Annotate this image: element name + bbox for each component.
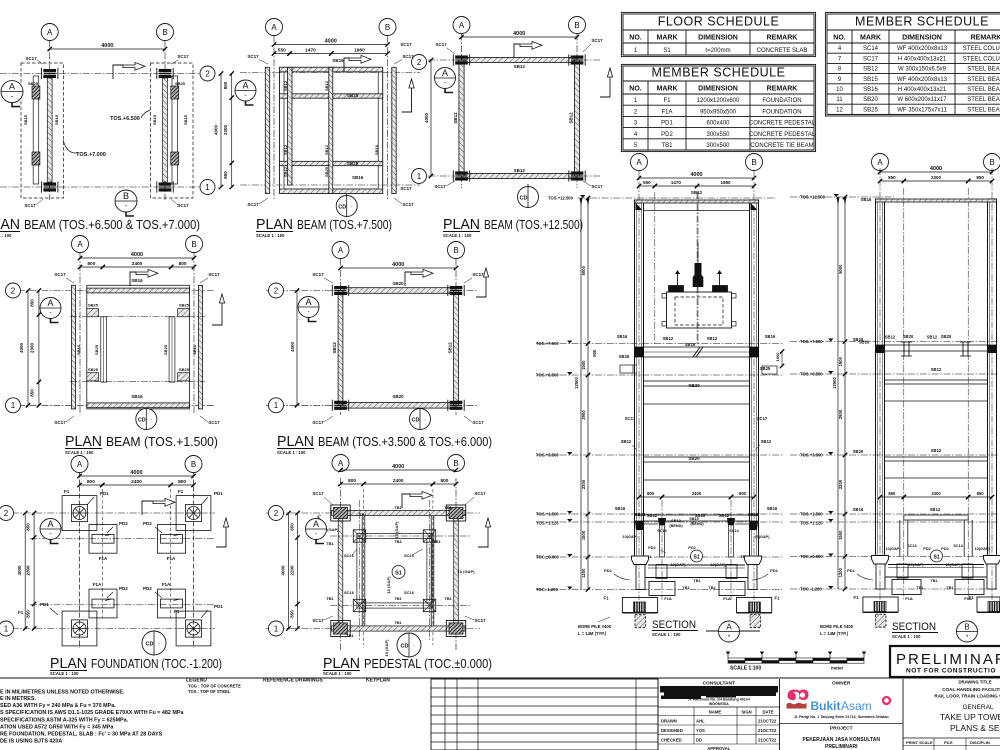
- svg-text:PD1: PD1: [214, 604, 223, 609]
- svg-text:800: 800: [179, 261, 187, 267]
- svg-text:FOUNDATION: FOUNDATION: [762, 98, 801, 104]
- svg-text:TOS.+3.500: TOS.+3.500: [800, 453, 823, 458]
- svg-text:SB16: SB16: [617, 334, 628, 339]
- svg-text:SCALE 1 : 100: SCALE 1 : 100: [443, 233, 472, 238]
- SB25 pads: [87, 309, 99, 317]
- grid line A: [79, 253, 81, 416]
- svg-text:10(GAP): 10(GAP): [886, 547, 902, 551]
- svg-text:SB16: SB16: [76, 344, 81, 355]
- svg-text:SC17: SC17: [400, 186, 412, 191]
- svg-text:SC17: SC17: [591, 38, 603, 43]
- svg-text:SB25: SB25: [175, 81, 186, 86]
- svg-text:A: A: [305, 297, 311, 307]
- svg-text:4000: 4000: [325, 39, 337, 45]
- svg-text:SB16: SB16: [853, 507, 864, 512]
- svg-text:SC17: SC17: [312, 272, 324, 277]
- svg-text:10 (GAP): 10 (GAP): [384, 639, 389, 657]
- svg-text:ATION USED A572 GR50 WITH Fy: ATION USED A572 GR50 WITH Fy = 345 MPa: [0, 725, 114, 731]
- svg-text:(BEND): (BEND): [690, 522, 704, 526]
- svg-text:A: A: [271, 23, 277, 32]
- svg-text:·: ·: [351, 205, 353, 211]
- grid bubble 1: [412, 169, 427, 184]
- svg-text:SC17: SC17: [591, 184, 603, 189]
- svg-text:F1A: F1A: [964, 596, 972, 601]
- grid line B dashdot: [991, 168, 993, 600]
- svg-text:SB16: SB16: [131, 278, 143, 283]
- svg-text:L = 14M (TYP.): L = 14M (TYP.): [820, 631, 849, 636]
- svg-text:SB15: SB15: [54, 114, 59, 125]
- svg-text:Jl. Parigi No. 1 Tanjung Enim: Jl. Parigi No. 1 Tanjung Enim 31716, Sum…: [794, 715, 890, 719]
- svg-text:800: 800: [739, 491, 747, 496]
- svg-text:SB12: SB12: [453, 112, 458, 124]
- svg-text:A: A: [47, 28, 53, 37]
- dimension 4000: [80, 475, 194, 477]
- up arrow: [216, 527, 226, 547]
- svg-text:STEEL BEAM: STEEL BEAM: [967, 87, 1000, 93]
- svg-text:PLANS & SECTIO: PLANS & SECTIO: [950, 723, 1000, 733]
- svg-text:950x950x500: 950x950x500: [700, 109, 737, 115]
- svg-text:TB1: TB1: [946, 586, 953, 590]
- svg-text:BEAM (TOS.+3.500 & TOS.+6.000): BEAM (TOS.+3.500 & TOS.+6.000): [318, 435, 492, 449]
- svg-text:10(GAP): 10(GAP): [975, 547, 991, 551]
- svg-text:A: A: [47, 298, 53, 308]
- svg-text:SC17: SC17: [312, 618, 324, 623]
- beam row at TOS+7.500: [635, 347, 759, 357]
- svg-text:800: 800: [178, 479, 186, 485]
- svg-text:1: 1: [4, 624, 9, 633]
- svg-text:PLAN: PLAN: [65, 434, 102, 450]
- svg-text:2300: 2300: [26, 565, 31, 576]
- dimensions 800 2400 800: [80, 484, 103, 486]
- dimension column 850/2300/850: [231, 74, 233, 188]
- corner pedestal A1: [331, 621, 350, 637]
- grid line A: [340, 478, 342, 650]
- svg-text:SB20: SB20: [688, 456, 700, 461]
- svg-text:B: B: [574, 21, 579, 30]
- grid bubble A: [332, 455, 349, 472]
- SC16 pads at inner corners: [353, 530, 365, 542]
- grid bubble 2: [200, 66, 215, 81]
- grid line A: [461, 34, 463, 189]
- section ref circle B: [957, 621, 978, 642]
- svg-text:1200: 1200: [838, 567, 843, 577]
- center dashdot through equipment: [697, 192, 699, 345]
- dimension 4000: [50, 48, 165, 50]
- svg-text:SB12: SB12: [931, 448, 942, 453]
- frame outline: [280, 67, 383, 193]
- up arrow right: [600, 77, 610, 97]
- svg-text:F1A: F1A: [162, 582, 171, 587]
- svg-text:INDONESIA: INDONESIA: [709, 702, 729, 706]
- svg-text:PD2: PD2: [119, 521, 128, 526]
- svg-text:REMARK: REMARK: [767, 86, 798, 93]
- section marker CD: [153, 632, 155, 641]
- svg-text:WF 400x200x8x13: WF 400x200x8x13: [897, 46, 948, 52]
- svg-text:STEEL BEAM: STEEL BEAM: [967, 97, 1000, 103]
- svg-text:A: A: [338, 459, 344, 468]
- grid line B: [193, 473, 195, 649]
- svg-text:12500: 12500: [574, 377, 579, 389]
- svg-text:TB1: TB1: [346, 633, 354, 638]
- up arrow: [212, 303, 222, 325]
- bottom beam SB16: [87, 403, 190, 408]
- svg-text:CD: CD: [146, 642, 154, 648]
- svg-text:SCALE 1 : 100: SCALE 1 : 100: [652, 632, 681, 637]
- svg-text:PEDESTAL (TOC.±0.000): PEDESTAL (TOC.±0.000): [364, 657, 492, 671]
- svg-text:TB1: TB1: [682, 586, 689, 590]
- svg-text:S1: S1: [693, 555, 699, 561]
- svg-text:SC17: SC17: [24, 203, 36, 208]
- beam SB20 at +3.500: [644, 457, 750, 462]
- beam SB20 at +6.500: [644, 381, 750, 386]
- north arrow: [113, 65, 123, 79]
- top beam SB16: [87, 288, 190, 293]
- svg-text:SB12: SB12: [514, 168, 526, 173]
- svg-text:SCALE 1 : 100: SCALE 1 : 100: [0, 233, 12, 238]
- corner pedestal B2: [446, 505, 465, 521]
- svg-text:4000: 4000: [17, 565, 22, 576]
- svg-text:SC17: SC17: [474, 491, 486, 496]
- svg-text:21OCT22: 21OCT22: [758, 738, 777, 743]
- svg-text:SB20: SB20: [853, 337, 864, 342]
- svg-text:S1: S1: [933, 555, 939, 561]
- north arrow: [514, 44, 520, 58]
- inner stub columns SC16: [660, 525, 665, 557]
- north arrow: [142, 501, 153, 515]
- svg-text:2200: 2200: [838, 479, 843, 489]
- svg-text:MARK: MARK: [657, 35, 678, 42]
- BukitAsam logo: [787, 690, 809, 709]
- svg-text:A: A: [636, 158, 642, 167]
- svg-text:SB15: SB15: [23, 114, 28, 125]
- inner vertical dashdot 550: [654, 192, 656, 345]
- svg-text:10 (GAP): 10 (GAP): [458, 569, 476, 574]
- svg-text:SB25: SB25: [28, 81, 39, 86]
- section marker CD bottom: [346, 194, 348, 207]
- svg-text:STEEL BEAM: STEEL BEAM: [967, 67, 1000, 73]
- section marker A: [306, 519, 327, 540]
- svg-text:TAKE UP TOWER 1: TAKE UP TOWER 1: [940, 712, 1000, 722]
- leader TOS.+6.500: [141, 110, 150, 118]
- level line TOS.+6.500: [536, 374, 784, 376]
- svg-text:SB16: SB16: [352, 175, 364, 180]
- svg-text:STEEL BEAM: STEEL BEAM: [967, 107, 1000, 113]
- svg-text:B: B: [162, 28, 167, 37]
- svg-text:TOS.+3.500: TOS.+3.500: [536, 453, 559, 458]
- level line TOC.+-0.000: [536, 556, 784, 558]
- dim 1000 right: [781, 352, 783, 367]
- pedestal cap left: [632, 556, 649, 565]
- svg-text:REMARK: REMARK: [767, 35, 798, 42]
- grid line 1: [0, 186, 199, 188]
- grid bubble 2: [412, 55, 427, 70]
- svg-text:10(GAP): 10(GAP): [755, 535, 771, 539]
- svg-text:TOC.-1.200: TOC.-1.200: [536, 587, 558, 592]
- svg-text:SB16: SB16: [131, 394, 143, 399]
- svg-text:SC17: SC17: [474, 618, 486, 623]
- svg-text:4000: 4000: [131, 252, 143, 258]
- svg-text:W 600x200x11x17: W 600x200x11x17: [897, 97, 947, 103]
- svg-text:SB15: SB15: [863, 77, 878, 83]
- pedestal cap left: [872, 556, 889, 565]
- svg-text:2900: 2900: [581, 410, 586, 420]
- north arrow: [344, 58, 349, 72]
- svg-text:SC17: SC17: [312, 491, 324, 496]
- svg-text:1470: 1470: [305, 48, 316, 54]
- svg-text:B: B: [123, 191, 129, 201]
- grid line B: [164, 41, 166, 201]
- beam SB12 at +3.500: [885, 457, 988, 461]
- svg-text:850: 850: [26, 523, 31, 531]
- foundation F1 grid B2: [176, 496, 211, 531]
- offset verticals: [363, 489, 365, 645]
- svg-text:TB1: TB1: [359, 512, 367, 517]
- beam assembly at grid B (plan view): [151, 63, 194, 198]
- svg-text:850: 850: [290, 610, 295, 618]
- foundation F1 left: [863, 597, 898, 612]
- pile left: [635, 615, 646, 628]
- svg-text:PLAN: PLAN: [0, 217, 20, 233]
- svg-text:NO.: NO.: [629, 35, 642, 42]
- svg-text:BEAM (TOS.+1.500): BEAM (TOS.+1.500): [106, 435, 218, 449]
- svg-text:PD2: PD2: [648, 546, 655, 550]
- svg-text:PD2: PD2: [119, 586, 128, 591]
- dimensions 800 2400 800: [341, 483, 364, 485]
- svg-text:FOUNDATION (TOC.-1.200): FOUNDATION (TOC.-1.200): [91, 657, 222, 671]
- beam SB16 bottom edge: [280, 189, 383, 194]
- svg-text:B: B: [453, 459, 458, 468]
- svg-text:MARK: MARK: [657, 86, 678, 93]
- section marker B bottom: [115, 190, 137, 212]
- svg-text:10(GAP): 10(GAP): [946, 563, 962, 567]
- grid bubble B: [448, 242, 465, 259]
- beam SB12 vertical left: [288, 67, 292, 185]
- svg-text:WF 350x175x7x11: WF 350x175x7x11: [897, 107, 947, 113]
- svg-text:850: 850: [30, 299, 35, 307]
- svg-text:21OCT22: 21OCT22: [758, 728, 777, 733]
- svg-text:PLAN: PLAN: [277, 434, 314, 450]
- svg-text:1500: 1500: [838, 356, 843, 366]
- level line TOS.+12.500: [578, 197, 776, 199]
- svg-text:10 (GAP): 10 (GAP): [386, 576, 391, 594]
- grid bubble B: [448, 455, 465, 472]
- svg-text:BEAM (TOS.+12.500): BEAM (TOS.+12.500): [484, 218, 583, 232]
- svg-text:PROJECT: PROJECT: [830, 726, 853, 732]
- grid line A dashdot: [879, 168, 881, 600]
- PRELIMINARY stamp: [890, 646, 1000, 677]
- foundation F1A right: [719, 582, 745, 596]
- svg-text:SB16: SB16: [765, 334, 776, 339]
- dimension 4000: [341, 469, 457, 471]
- svg-text:1500: 1500: [581, 360, 586, 370]
- svg-text:PD1: PD1: [604, 568, 613, 573]
- svg-text:SB12: SB12: [719, 513, 730, 518]
- grid bubble A: [266, 19, 283, 36]
- svg-text:STEEL COLUMN: STEEL COLUMN: [963, 56, 1000, 62]
- grid bubble B: [569, 17, 586, 34]
- svg-text:E IN METRES.: E IN METRES.: [0, 696, 36, 702]
- svg-text:MARK: MARK: [860, 35, 881, 42]
- svg-text:TOS.+12.500: TOS.+12.500: [548, 196, 574, 201]
- svg-text:Bukit: Bukit: [811, 699, 841, 713]
- equipment (take-up unit): [667, 292, 732, 328]
- svg-text:TB1: TB1: [326, 596, 334, 601]
- leader TOS.+7.000: [63, 140, 77, 153]
- svg-text:TOS.+6.500: TOS.+6.500: [110, 116, 140, 122]
- top beam SB12 level +12.500: [635, 200, 759, 203]
- svg-text:550: 550: [643, 180, 651, 185]
- tie beam top (outer): [332, 510, 466, 515]
- svg-text:5000: 5000: [838, 264, 843, 274]
- svg-text:SB25: SB25: [748, 512, 759, 517]
- svg-text:F1: F1: [174, 609, 180, 614]
- svg-text:800: 800: [647, 491, 655, 496]
- grid line 1: [0, 628, 215, 630]
- beam SB12 vertical mid: [329, 67, 333, 193]
- grid line B dashdot: [753, 170, 755, 600]
- svg-text:FLOOR SCHEDULE: FLOOR SCHEDULE: [658, 15, 780, 29]
- grid line A: [79, 473, 81, 649]
- beam SB12 at +6.500: [885, 380, 988, 384]
- svg-text:SC17: SC17: [435, 42, 447, 47]
- svg-text:A: A: [313, 519, 319, 529]
- section marker A: [435, 68, 456, 89]
- svg-text:SIGN: SIGN: [741, 710, 751, 715]
- up arrow: [476, 277, 486, 297]
- svg-text:DRAWING TITLE: DRAWING TITLE: [958, 680, 991, 685]
- svg-text:SC17: SC17: [247, 202, 259, 207]
- svg-text:Asam: Asam: [841, 699, 872, 713]
- svg-text:MEMBER SCHEDULE: MEMBER SCHEDULE: [652, 66, 786, 80]
- svg-text:2200: 2200: [581, 479, 586, 489]
- svg-text:10 (GAP): 10 (GAP): [394, 521, 399, 539]
- svg-text:550: 550: [278, 48, 286, 54]
- svg-text:4000: 4000: [513, 31, 525, 37]
- svg-text:SB13: SB13: [671, 519, 681, 523]
- inner beam pair left: [101, 317, 107, 382]
- north arrow: [405, 272, 411, 286]
- grid line 2: [266, 290, 478, 292]
- svg-text:SC17: SC17: [208, 272, 220, 277]
- svg-text:PRELIMINARI: PRELIMINARI: [825, 744, 858, 750]
- svg-text:t=200mm: t=200mm: [705, 48, 730, 54]
- svg-text:SB25: SB25: [88, 367, 99, 372]
- svg-text:850: 850: [290, 523, 295, 531]
- svg-text:DIMENSION: DIMENSION: [698, 35, 738, 42]
- beam assembly at grid A (plan view): [21, 63, 64, 198]
- grid bubble A: [71, 456, 88, 473]
- svg-text:PLAN: PLAN: [443, 217, 480, 233]
- svg-text:SB16: SB16: [861, 197, 872, 202]
- diagonal hatch marks on beam row: [634, 347, 644, 357]
- svg-text:2: 2: [205, 69, 210, 78]
- dim chain left: [587, 198, 589, 590]
- svg-text:SB12: SB12: [691, 190, 703, 195]
- svg-text:B: B: [385, 23, 390, 32]
- svg-text:1470: 1470: [671, 180, 682, 185]
- north arrow: [130, 272, 136, 286]
- svg-text:REFERENCE DRAWINGS: REFERENCE DRAWINGS: [263, 678, 323, 684]
- svg-text:2: 2: [11, 286, 16, 295]
- svg-text:300x500: 300x500: [706, 143, 730, 149]
- level line TOC.-1.200: [536, 589, 784, 591]
- svg-text:SB25: SB25: [347, 161, 359, 166]
- svg-text:RE FOUNDATION, PEDESTAL, SLAB: RE FOUNDATION, PEDESTAL, SLAB : Fc' = 30…: [0, 732, 163, 738]
- svg-text:SB16: SB16: [332, 58, 344, 63]
- svg-text:SB12: SB12: [761, 439, 772, 444]
- svg-text:·: ·: [413, 644, 415, 650]
- svg-text:PLAN: PLAN: [50, 656, 87, 672]
- grid line 1: [266, 404, 478, 406]
- svg-text:4000: 4000: [690, 172, 702, 178]
- svg-text:SB20: SB20: [941, 334, 952, 339]
- svg-text:REMARK: REMARK: [971, 35, 1000, 42]
- svg-text:PD2: PD2: [688, 546, 695, 550]
- tie beam left (outer): [338, 516, 343, 626]
- left dim 4000: [27, 291, 29, 406]
- svg-text:TOS.+1.500: TOS.+1.500: [800, 512, 823, 517]
- svg-text:TOS.+1.125: TOS.+1.125: [800, 521, 823, 526]
- grid line 2: [240, 72, 420, 74]
- svg-text:DATE: DATE: [762, 710, 773, 715]
- svg-text:DE IS USING BJTS 420A: DE IS USING BJTS 420A: [0, 739, 62, 745]
- up arrow right: [402, 88, 412, 112]
- svg-text:SB25: SB25: [347, 93, 359, 98]
- svg-text:PLAN: PLAN: [256, 217, 293, 233]
- svg-text:2: 2: [417, 58, 422, 67]
- svg-text:SB25: SB25: [163, 344, 168, 355]
- svg-text:SB12: SB12: [647, 513, 658, 518]
- svg-text:SB25: SB25: [94, 344, 99, 355]
- svg-text:1: 1: [11, 401, 16, 410]
- svg-text:4000: 4000: [930, 166, 942, 172]
- svg-text:SB25: SB25: [635, 512, 646, 517]
- svg-text:12: 12: [836, 107, 843, 113]
- foundation F1 right: [977, 597, 1000, 612]
- svg-text:800: 800: [348, 478, 356, 484]
- svg-text:1000: 1000: [775, 352, 780, 362]
- grid bubble 2: [0, 506, 14, 521]
- svg-text:STEEL BEAM: STEEL BEAM: [967, 77, 1000, 83]
- right column SC17: [750, 200, 759, 557]
- lower inner dashdot verticals: [661, 500, 663, 600]
- pedestal shafts: [876, 564, 885, 589]
- svg-text:(BEND): (BEND): [669, 524, 683, 528]
- svg-text:SCALE 1 : 100: SCALE 1 : 100: [892, 634, 921, 639]
- svg-text:PD2: PD2: [143, 586, 152, 591]
- tie beam vertical at offset A+800: [361, 516, 363, 626]
- grid line 2: [428, 59, 600, 61]
- grid bubble A: [453, 17, 470, 34]
- svg-text:2300: 2300: [30, 342, 35, 353]
- svg-text:L = 14M (TYP.): L = 14M (TYP.): [578, 631, 607, 636]
- beam SB16 top edge: [280, 67, 383, 72]
- view: SECTION B: [790, 154, 1000, 643]
- svg-text:TOS.+6.500: TOS.+6.500: [800, 372, 823, 377]
- svg-text:4000: 4000: [130, 470, 142, 476]
- corner columns: [456, 56, 468, 59]
- svg-text:F1: F1: [775, 596, 781, 601]
- section marker A: [298, 297, 319, 318]
- svg-text:B: B: [751, 158, 756, 167]
- svg-text:NOT FOR CONSTRUCTIO: NOT FOR CONSTRUCTIO: [906, 668, 996, 675]
- svg-text:APPROVAL: APPROVAL: [707, 746, 730, 750]
- view: PLAN BEAM (TOS.+7.500): [235, 19, 420, 239]
- title block strip: [0, 678, 1000, 750]
- svg-text:A: A: [338, 246, 344, 255]
- svg-text:11: 11: [836, 97, 843, 103]
- svg-text:4000: 4000: [392, 262, 404, 268]
